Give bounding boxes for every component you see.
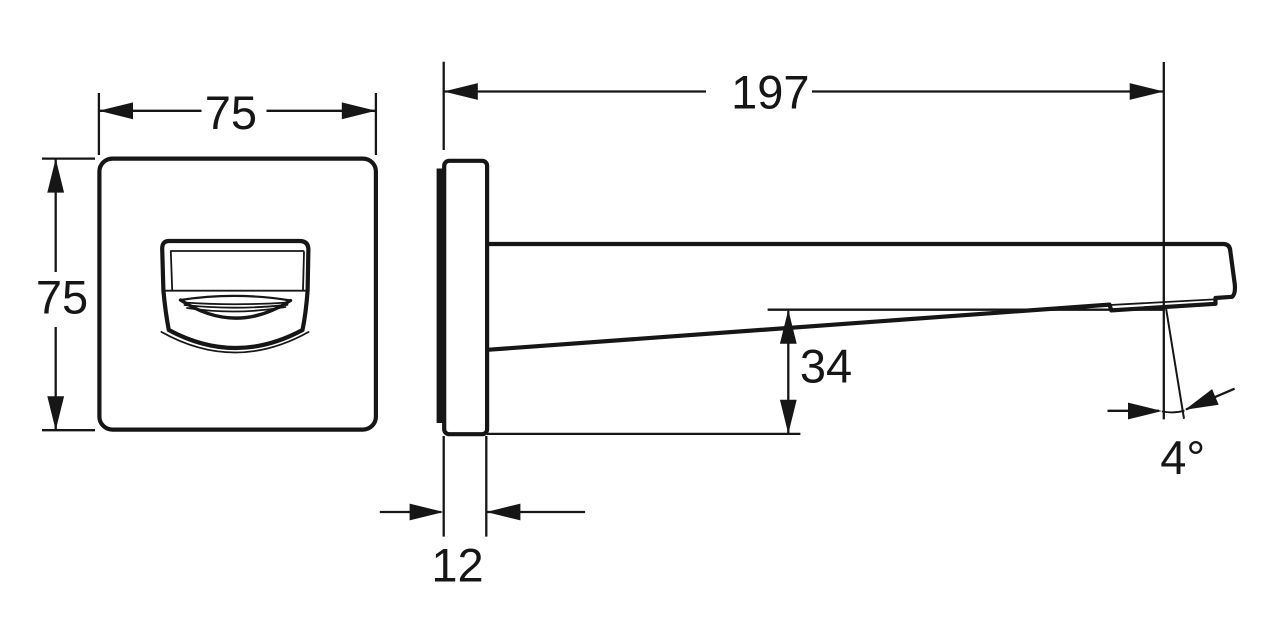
dim 75 horizontal: left extension line: [98, 93, 100, 155]
svg-text:75: 75: [205, 86, 257, 139]
dim 12: left arrowhead: [410, 504, 444, 521]
aerator mesh line 2: [185, 305, 288, 308]
dim 197: left extension line: [443, 62, 445, 150]
dim 34: bottom arrowhead: [780, 400, 797, 434]
spout body side view outline: [487, 244, 1235, 350]
dim 34: top extension line: [768, 309, 1163, 311]
dim 75 horizontal: right extension line: [375, 93, 377, 155]
aerator mesh line 1: [184, 303, 289, 305]
svg-text:12: 12: [431, 539, 483, 592]
dim 12: left extension line: [443, 436, 445, 537]
dim 4deg: slanted reference line: [1166, 308, 1184, 419]
dim 75 horizontal: dimension line: [99, 110, 376, 112]
dim 34: bottom extension line (from plate corner): [487, 433, 800, 435]
dim 75 vertical: bottom arrowhead: [47, 396, 64, 430]
spout opening shelf line: [163, 290, 307, 292]
spout opening inner top line: [172, 250, 304, 252]
svg-text:4°: 4°: [1160, 431, 1205, 484]
dim 75 horizontal: right arrowhead: [342, 102, 376, 119]
dim 197: right arrowhead: [1130, 83, 1164, 100]
aerator mesh line 3: [187, 307, 286, 312]
aerator bottom edge (front view): [181, 300, 291, 318]
dim 4deg: right arrowhead: [1185, 389, 1219, 410]
spout opening inner right line: [303, 252, 304, 290]
dim 75 vertical: top extension line: [42, 157, 95, 159]
svg-text:34: 34: [800, 339, 852, 392]
dim 12: left shaft: [380, 511, 441, 513]
dim 4deg: left arrow shaft: [1108, 410, 1160, 412]
dim 4deg: angle arc: [1162, 411, 1185, 413]
dim 12: right shaft: [487, 511, 585, 513]
dim 12: right extension line: [485, 436, 487, 537]
spout lip outer thin arc: [162, 332, 309, 353]
dim 197: dimension line: [444, 90, 1164, 92]
dim 4deg: left arrowhead: [1128, 403, 1162, 420]
dim 34: dimension line: [787, 311, 789, 434]
dim 197: left arrowhead: [444, 83, 478, 100]
dim 4deg: right arrow shaft: [1186, 389, 1235, 410]
dim 75 vertical: dimension line: [55, 159, 57, 431]
dim 12: right arrowhead: [486, 504, 520, 521]
dim 197: right extension line: [1163, 62, 1165, 419]
dim 75 horizontal: left arrowhead: [99, 102, 133, 119]
aerator top edge (front view): [181, 296, 291, 301]
dim 75 vertical: top arrowhead: [47, 159, 64, 193]
spout opening outer outline (front view): [162, 241, 308, 348]
aerator housing top thin line (side view): [1110, 299, 1215, 305]
dim 75 vertical: bottom extension line: [42, 429, 95, 431]
svg-text:197: 197: [731, 66, 809, 119]
spout opening inner left line: [171, 251, 172, 290]
wall plate side view outline: [444, 161, 487, 434]
dim 34: top arrowhead: [780, 310, 797, 344]
svg-text:75: 75: [36, 271, 88, 324]
wall plate front view outline: [99, 159, 376, 430]
mounting gasket black bar (side view): [437, 169, 444, 424]
